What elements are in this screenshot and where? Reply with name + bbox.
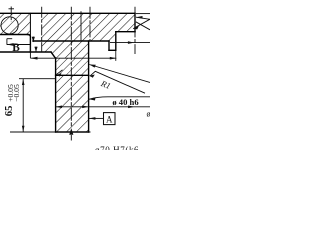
svg-text:ø 40 h6: ø 40 h6: [112, 97, 139, 107]
svg-text:B: B: [12, 42, 20, 54]
svg-text:ø70 H7(k6: ø70 H7(k6: [95, 145, 139, 150]
svg-text:A: A: [106, 114, 113, 124]
svg-text:−0.05: −0.05: [12, 84, 21, 102]
svg-text:ø: ø: [147, 110, 151, 119]
svg-text:65: 65: [4, 106, 15, 117]
